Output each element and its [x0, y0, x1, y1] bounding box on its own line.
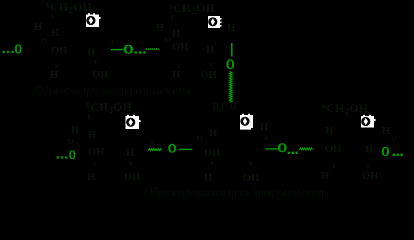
svg-text:H: H	[156, 23, 164, 34]
svg-text:H: H	[227, 23, 235, 34]
svg-text:OH: OH	[92, 70, 108, 81]
svg-text:x: x	[210, 159, 214, 167]
dots after bottom-right bridge O	[288, 152, 298, 154]
svg-text:H2C–O: H2C–O	[213, 102, 236, 114]
svg-text:x: x	[209, 61, 213, 69]
wire bond below CH2OH bottom unit 1	[88, 114, 90, 119]
svg-text:O: O	[165, 35, 171, 44]
svg-text:O: O	[197, 134, 203, 143]
placeholder box B3	[126, 115, 141, 129]
text CH2OH of top unit 2	[169, 2, 215, 16]
svg-text:H: H	[209, 128, 217, 139]
svg-text:x: x	[249, 159, 253, 167]
svg-text:Образовавшаяся цепь макромолек: Образовавшаяся цепь макромолекулы	[144, 187, 329, 199]
svg-text:x: x	[264, 134, 268, 142]
atom labels H/OH of top unit 1	[34, 22, 108, 81]
svg-text:OH: OH	[201, 70, 217, 81]
svg-text:O: O	[69, 147, 76, 162]
svg-text:H: H	[51, 28, 59, 39]
text CH2OH of bottom unit 3	[322, 102, 368, 116]
svg-text:OH: OH	[325, 144, 341, 155]
svg-text:O: O	[391, 134, 397, 143]
svg-text:O: O	[168, 140, 176, 155]
atom labels of bottom unit 2	[197, 122, 268, 184]
svg-text:H: H	[172, 29, 180, 40]
svg-text:x: x	[366, 162, 370, 170]
svg-text:H: H	[382, 126, 390, 137]
svg-text:H: H	[87, 172, 95, 183]
svg-text:O: O	[226, 57, 234, 73]
svg-text:H: H	[50, 70, 58, 81]
wire zigzag bond into bottom bridge O	[148, 149, 161, 151]
svg-text:OH: OH	[243, 173, 259, 184]
svg-text:x: x	[150, 139, 154, 147]
text H2C-O of bottom unit 2 (branch attach)	[213, 102, 236, 114]
svg-text:x: x	[177, 62, 181, 70]
svg-text:O: O	[15, 41, 22, 56]
wire bond left of bottom-right bridge O	[265, 148, 277, 150]
atom labels H/OH of bottom unit 3	[321, 126, 397, 182]
svg-text:O: O	[382, 144, 390, 159]
svg-text:x: x	[111, 38, 115, 46]
svg-text:H: H	[260, 122, 268, 133]
wire vertical bond to branch O	[231, 43, 233, 57]
svg-text:O: O	[68, 137, 74, 146]
node O right end of bottom chain	[382, 144, 403, 159]
svg-text:OH: OH	[51, 46, 67, 57]
wire bond to O bridge (top chain)	[111, 49, 124, 51]
svg-text:H: H	[325, 126, 333, 137]
atom labels H/OH of top unit 2	[156, 23, 235, 81]
svg-text:H: H	[321, 171, 329, 182]
svg-text:x: x	[93, 160, 97, 168]
svg-text:H: H	[87, 48, 95, 59]
svg-text:H: H	[88, 130, 96, 141]
placeholder box B1	[86, 13, 101, 27]
svg-text:H: H	[71, 125, 79, 136]
svg-text:H: H	[172, 70, 180, 81]
svg-text:OH: OH	[124, 172, 140, 183]
svg-text:Обрывки цепи макромолекулы: Обрывки цепи макромолекулы	[34, 85, 190, 97]
placeholder box B2	[208, 16, 222, 28]
node ...O left end of top chain	[3, 41, 22, 56]
wire zigzag bond from branch O down to lower chain	[229, 72, 232, 103]
svg-text:x: x	[55, 62, 59, 70]
text CH2OH of bottom unit 1	[86, 101, 132, 115]
svg-text:H: H	[206, 45, 214, 56]
wire bond below CH2OH unit 2	[172, 15, 174, 20]
wire bond right of bottom-left bridge O	[179, 148, 192, 150]
svg-text:x: x	[129, 159, 133, 167]
svg-text:OH: OH	[204, 148, 220, 159]
svg-text:H: H	[34, 22, 42, 33]
svg-text:OH: OH	[172, 42, 188, 53]
placeholder box B5	[361, 115, 376, 128]
svg-text:OH: OH	[362, 171, 378, 182]
svg-text:H: H	[204, 173, 212, 184]
wire dotted bond after O bridge	[146, 48, 159, 50]
node ...O left end of bottom chain	[57, 147, 76, 162]
wire bond below CH2OH unit 1	[52, 14, 54, 19]
atom labels H/OH of bottom unit 1	[68, 125, 140, 183]
placeholder box B4	[240, 114, 253, 130]
svg-text:x: x	[332, 162, 336, 170]
dots after O bridge	[135, 51, 146, 53]
wire zigzag after bottom-right bridge	[299, 148, 312, 150]
svg-text:H: H	[126, 148, 134, 159]
svg-text:O: O	[123, 43, 133, 57]
svg-text:O: O	[41, 36, 47, 45]
svg-text:O: O	[278, 141, 288, 155]
svg-text:x: x	[94, 58, 98, 66]
svg-text:OH: OH	[88, 147, 104, 158]
text CH2OH of top unit 1	[46, 1, 92, 15]
svg-text:H: H	[365, 144, 373, 155]
